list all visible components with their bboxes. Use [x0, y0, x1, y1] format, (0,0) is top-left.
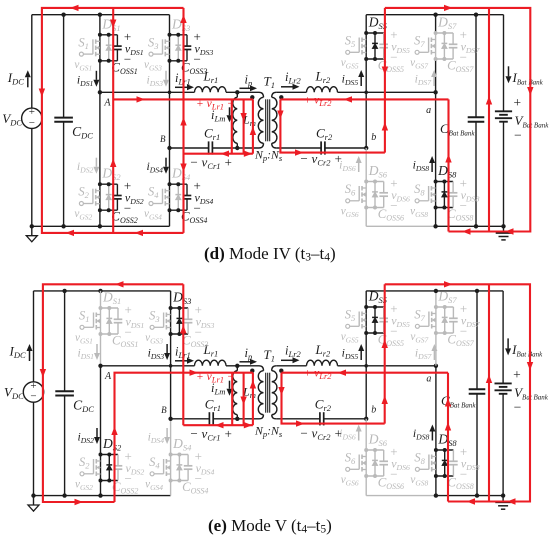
ground (primary) [33, 496, 35, 505]
ground (primary) [31, 226, 33, 235]
current arrow [70, 5, 79, 11]
svg-text:−: − [390, 467, 397, 482]
wire: DC source branch [31, 15, 33, 108]
diode DS7 (body diode) [444, 307, 446, 317]
current arrow [295, 149, 304, 155]
capacitor Cr2 [319, 412, 321, 425]
current arrow [221, 151, 230, 157]
transistor S8 (MOSFET, gray symbol) [415, 199, 419, 203]
label iDS3 with arrow [146, 71, 169, 88]
wire: cell S2 top/bottom bars [100, 183, 118, 185]
capacitor COSS6 [383, 182, 385, 193]
wire: cell S4 top/bottom bars [171, 454, 189, 456]
svg-text:B: B [160, 134, 166, 144]
current arrow [110, 20, 116, 29]
wire (red current path) [115, 373, 253, 502]
svg-text:Np​:Ns​: Np​:Ns​ [254, 423, 283, 439]
current arrow [215, 422, 224, 428]
wire: secondary top rail [366, 290, 503, 292]
svg-text:−: − [125, 325, 132, 340]
svg-text:S6​: S6​ [345, 182, 356, 198]
wire: cell S2 top/bottom bars [101, 454, 119, 456]
current arrow [382, 122, 388, 131]
svg-text:b: b [371, 404, 376, 415]
svg-text:−: − [194, 201, 201, 216]
capacitor COSS8 [452, 182, 454, 193]
svg-text:−: − [514, 399, 522, 414]
svg-text:−: − [195, 325, 202, 340]
wire: Cr1 to transformer [213, 418, 259, 420]
wire: node A to Lr1 [101, 365, 195, 367]
wire: cell S6 top/bottom bars [366, 181, 384, 183]
wire: leg a (S7/S8) [435, 15, 437, 227]
capacitor COSS3 [186, 35, 188, 46]
circuit (e): Mode V [4, 281, 549, 535]
label iDS1 with arrow [77, 344, 100, 361]
capacitor COSS2 [116, 184, 118, 195]
svg-text:−: − [195, 471, 202, 486]
transistor S1 (MOSFET, gray symbol) [79, 52, 83, 56]
current arrow [445, 422, 451, 431]
transistor S2 (MOSFET, gray symbol) [79, 202, 83, 206]
wire: primary bottom rail [34, 495, 171, 497]
diode DS4 (body diode) [178, 455, 180, 465]
wire: cell S3 top/bottom bars [171, 307, 189, 309]
wire: secondary bottom, transformer to Cr2 [276, 418, 320, 420]
wire: node A to Lr1 [100, 91, 195, 93]
capacitor Cr2 [320, 141, 322, 154]
label iDS2 with arrow [77, 428, 100, 445]
wire: cell S8 top/bottom bars [436, 181, 454, 183]
wire (red current path) [183, 424, 253, 426]
wire: secondary bottom, transformer to Cr2 [276, 147, 321, 149]
source VDC [23, 382, 43, 402]
current arrow [527, 87, 533, 96]
svg-text:a: a [426, 373, 431, 384]
transformer T1 primary winding [259, 92, 264, 97]
node: S3 cell junctions [168, 33, 172, 37]
wire (red current path) [231, 99, 233, 153]
wire: Cr1 to transformer [212, 147, 259, 149]
current arrow [75, 499, 84, 505]
node: rail junctions [62, 289, 66, 293]
current arrow [250, 380, 256, 389]
capacitor COSS4 [186, 184, 188, 195]
wire: leg b (S5/S6) [365, 15, 367, 148]
diode DS6 (body diode) [374, 450, 376, 460]
wire: primary bottom rail [32, 225, 170, 227]
current arrow [382, 340, 388, 349]
wire: Lr1 to transformer [226, 91, 259, 93]
diode DS3 (body diode) [177, 35, 179, 45]
svg-text:(e) Mode V (t4–t5): (e) Mode V (t4–t5) [208, 516, 332, 536]
label iDS6 with arrow [339, 156, 362, 173]
current arrow [190, 370, 199, 376]
node: S6 cell junctions [364, 448, 368, 452]
transistor S6 (MOSFET, gray symbol) [346, 467, 350, 471]
node: S5 cell junctions [364, 305, 368, 309]
svg-text:+: + [514, 95, 522, 110]
current arrow [244, 151, 253, 157]
capacitor CDC [64, 291, 66, 391]
svg-text:(d) Mode IV (t3–t4): (d) Mode IV (t3–t4) [204, 244, 336, 264]
label iDS8 with arrow [413, 425, 436, 442]
capacitor COSS4 [187, 455, 189, 466]
svg-text:−: − [390, 324, 397, 339]
current arrow [505, 228, 514, 234]
current arrow [180, 117, 186, 126]
capacitor COSS5 [383, 33, 385, 44]
ground (secondary) [502, 496, 504, 503]
current arrow [507, 498, 516, 504]
wire (red current path) [182, 284, 184, 425]
node B [167, 146, 171, 150]
diode DS8 (body diode) [444, 450, 446, 460]
node: S4 cell junctions [168, 182, 172, 186]
current arrow [444, 5, 453, 11]
wire (red current path) [385, 284, 530, 501]
label iDS5 with arrow [342, 70, 365, 87]
current arrow [110, 159, 116, 168]
transformer T1 secondary winding [272, 92, 277, 97]
wire: cell S6 top/bottom bars [366, 449, 384, 451]
node B [168, 417, 172, 421]
wire: Lr2 to node a [338, 91, 436, 93]
diode DS1 (body diode) [108, 308, 110, 318]
svg-text:S4​: S4​ [149, 455, 160, 471]
current arrow [444, 281, 453, 287]
node b [364, 417, 368, 421]
wire: leg A (S1/S2) [99, 15, 101, 227]
transistor S1 (MOSFET, gray symbol) [80, 325, 84, 329]
current arrow [445, 154, 451, 163]
wire: transformer to Lr2 [276, 365, 306, 367]
label iDS5 with arrow [342, 344, 365, 361]
transistor S3 (MOSFET, gray symbol) [150, 325, 154, 329]
transistor S4 (MOSFET, gray symbol) [149, 202, 153, 206]
wire (red current path) [447, 373, 449, 502]
diode DS8 (body diode) [443, 182, 445, 192]
svg-text:−: − [460, 50, 467, 65]
current arrow [278, 387, 284, 396]
diode DS1 (body diode) [108, 35, 110, 45]
current arrow [527, 362, 533, 371]
wire: leg segment inside inactive cell S7 [435, 307, 437, 333]
current arrow [111, 427, 117, 436]
capacitor COSS5 [383, 307, 385, 318]
wire: leg b (S5/S6) [365, 291, 367, 419]
wire: leg segment inside inactive cell S6 [365, 450, 367, 476]
transistor S7 (MOSFET, gray symbol) [415, 324, 419, 328]
wire (red current path) [112, 8, 114, 233]
current arrow [338, 370, 347, 376]
svg-text:S6​: S6​ [345, 451, 356, 467]
node: S4 cell junctions [169, 453, 173, 457]
node A [98, 364, 102, 368]
node: S7 cell junctions [434, 31, 438, 35]
transformer T1 core [265, 99, 267, 141]
wire: primary top rail [34, 290, 171, 292]
wire: cell S7 top/bottom bars [436, 32, 454, 34]
label iDS6 with arrow [339, 425, 362, 442]
label IBatBank with arrow [507, 338, 509, 348]
wire (red current path) [488, 8, 490, 232]
wire: leg segment inside inactive cell S4 [169, 455, 171, 481]
node: secondary rail junctions [434, 289, 438, 293]
transistor S2 (MOSFET, gray symbol) [80, 472, 84, 476]
wire: leg segment inside inactive cell S7 [434, 33, 436, 59]
wire (red current path) [113, 98, 253, 100]
node: S3 cell junctions [169, 306, 173, 310]
node: S6 cell junctions [364, 180, 368, 184]
transformer polarity dots [250, 369, 254, 373]
label iDS7 with arrow [415, 344, 438, 361]
inductor Lm (magnetizing) [235, 364, 239, 368]
diode DS4 (body diode) [177, 184, 179, 194]
current arrow [39, 89, 45, 98]
wire: DC source branch [33, 291, 35, 382]
wire (red current path) [252, 99, 254, 153]
node: S1 cell junctions [99, 306, 103, 310]
node: S8 cell junctions [434, 448, 438, 452]
wire: Lr1 to transformer [226, 365, 259, 367]
wire: cell S8 top/bottom bars [436, 449, 454, 451]
wire: leg segment inside inactive cell S1 [99, 308, 101, 334]
label iDS3 with arrow [148, 344, 171, 361]
diode DS5 (body diode) [374, 33, 376, 43]
svg-text:S7​: S7​ [414, 308, 425, 324]
svg-text:Np​:Ns​: Np​:Ns​ [254, 148, 283, 164]
wire (red current path) [43, 284, 183, 502]
current arrow [467, 498, 476, 504]
wire (red current path) [184, 153, 253, 155]
svg-text:b: b [371, 132, 376, 143]
wire: leg A (S1/S2) [100, 291, 102, 366]
current arrow [462, 228, 471, 234]
transistor S4 (MOSFET, gray symbol) [150, 472, 154, 476]
inductor Lm (magnetizing) [235, 90, 239, 94]
node: S1 cell junctions [98, 33, 102, 37]
wire: cell S7 top/bottom bars [436, 306, 454, 308]
wire: secondary bottom rail [366, 495, 436, 497]
wire (red current path) [280, 99, 385, 152]
node: S7 cell junctions [434, 305, 438, 309]
wire (red current path) [282, 372, 449, 374]
svg-text:B: B [161, 405, 167, 415]
wire: cell S4 top/bottom bars [170, 183, 188, 185]
node: S2 cell junctions [98, 182, 102, 186]
capacitor COSS1 [116, 35, 118, 46]
transformer T1 core [265, 373, 267, 413]
current arrow [115, 281, 124, 287]
node A [98, 90, 102, 94]
wire (red current path) [243, 99, 245, 153]
inductor Lr2 [307, 360, 338, 366]
node: rail junctions [61, 13, 65, 17]
wire (red current path) [447, 99, 449, 231]
diode DS6 (body diode) [374, 182, 376, 192]
current arrow [296, 420, 305, 426]
diode DS5 (body diode) [374, 307, 376, 317]
transistor S6 (MOSFET, gray symbol) [346, 199, 350, 203]
circuit (d): Mode IV [2, 5, 549, 264]
source VDC [22, 108, 42, 128]
battery VBatBank [503, 15, 505, 112]
capacitor CBatBank [476, 291, 478, 389]
wire (red current path) [384, 284, 386, 423]
svg-text:A: A [103, 97, 111, 108]
svg-text:−: − [460, 324, 467, 339]
wire: Cr2 to node b [324, 418, 367, 420]
capacitor Cr1 [208, 412, 210, 425]
diode DS3 (body diode) [178, 308, 180, 318]
svg-text:−: − [460, 198, 467, 213]
capacitor COSS1 [117, 308, 119, 319]
current arrow [180, 325, 186, 334]
svg-text:−: − [29, 117, 35, 129]
svg-text:S2​: S2​ [78, 185, 89, 201]
wire: leg B (S3/S4) [169, 15, 171, 227]
capacitor CDC [63, 15, 65, 118]
current arrow [135, 230, 144, 236]
transformer polarity dots [250, 95, 254, 99]
wire (red current path) [280, 98, 448, 100]
label iDS1 with arrow [77, 71, 100, 88]
wire (red current path) [182, 8, 184, 233]
wire: cell S1 top/bottom bars [101, 307, 119, 309]
label iDS2 with arrow [77, 158, 100, 175]
capacitor COSS6 [383, 450, 385, 461]
transistor S5 (MOSFET, gray symbol) [346, 50, 350, 54]
transistor S7 (MOSFET, gray symbol) [415, 50, 419, 54]
wire (red current path) [384, 8, 386, 153]
current arrow [344, 96, 353, 102]
wire (red current path) [282, 373, 385, 424]
svg-text:−: − [390, 50, 397, 65]
node: secondary rail junctions [433, 13, 437, 17]
current arrow [382, 396, 388, 405]
wire: primary top rail [32, 14, 170, 16]
label iDS4 with arrow [148, 428, 171, 445]
battery VBatBank [502, 291, 504, 384]
transistor S5 (MOSFET, gray symbol) [346, 324, 350, 328]
diode DS2 (body diode) [108, 455, 110, 465]
wire: node B to Cr1 [170, 147, 209, 149]
wire (red current path) [231, 373, 233, 426]
node a [434, 364, 438, 368]
transformer T1 primary winding [259, 366, 264, 371]
current arrow [66, 230, 75, 236]
capacitor COSS2 [117, 455, 119, 466]
wire: Cr2 to node b [325, 147, 366, 149]
transistor S3 (MOSFET, gray symbol) [149, 52, 153, 56]
current arrow [250, 127, 256, 136]
wire: transformer to Lr2 [276, 91, 306, 93]
node: S2 cell junctions [99, 453, 103, 457]
svg-text:−: − [124, 51, 131, 66]
current arrow [277, 111, 283, 120]
wire: cell S3 top/bottom bars [170, 34, 188, 36]
svg-text:A: A [104, 371, 112, 382]
wire: node B to Cr1 [171, 418, 210, 420]
diode DS7 (body diode) [443, 33, 445, 43]
wire (red current path) [488, 284, 490, 501]
current arrow [486, 375, 492, 384]
current arrow [240, 397, 246, 406]
svg-text:−: − [390, 198, 397, 213]
wire: Lr2 to node a [338, 365, 436, 367]
svg-text:S8​: S8​ [414, 182, 425, 198]
svg-text:−: − [194, 51, 201, 66]
capacitor COSS7 [452, 307, 454, 318]
node: S8 cell junctions [434, 180, 438, 184]
capacitor COSS8 [452, 450, 454, 461]
label iDS7 with arrow [415, 70, 438, 87]
inductor Lr1 [195, 87, 227, 93]
svg-text:S8​: S8​ [414, 451, 425, 467]
current arrow [382, 67, 388, 76]
capacitor COSS3 [187, 308, 189, 319]
wire: cell S5 top/bottom bars [366, 32, 384, 34]
wire: secondary top rail [366, 14, 503, 16]
current arrow [244, 422, 253, 428]
svg-text:−: − [460, 467, 467, 482]
wire: leg a (S7/S8) [435, 291, 437, 366]
current arrow [180, 164, 186, 173]
svg-text:S7​: S7​ [414, 34, 425, 50]
current arrow [240, 113, 246, 122]
svg-text:−: − [125, 471, 132, 486]
wire (red current path) [385, 8, 530, 232]
transformer T1 secondary winding [272, 366, 277, 371]
wire (red current path) [42, 8, 184, 233]
inductor Lr2 [307, 87, 338, 93]
wire: secondary bottom rail [366, 225, 435, 227]
diode DS2 (body diode) [108, 184, 110, 194]
wire: leg segment inside inactive cell S6 [365, 182, 367, 208]
node: S5 cell junctions [364, 31, 368, 35]
node b [364, 146, 368, 150]
current arrow [137, 96, 146, 102]
label IBatBank with arrow [508, 66, 510, 76]
label iDS8 with arrow [413, 156, 436, 173]
ground (secondary) [503, 226, 505, 233]
wire (red current path) [252, 373, 254, 426]
transistor S8 (MOSFET, gray symbol) [415, 467, 419, 471]
wire: cell S5 top/bottom bars [366, 306, 384, 308]
svg-text:−: − [124, 201, 131, 216]
current arrow [40, 369, 46, 378]
current arrow [180, 15, 186, 24]
svg-text:−: − [514, 127, 522, 142]
inductor Lr1 [195, 360, 227, 366]
capacitor CBatBank [475, 15, 477, 118]
svg-text:−: − [30, 391, 36, 403]
current arrow [445, 398, 451, 407]
label iDS4 with arrow [146, 158, 169, 175]
svg-text:+: + [513, 367, 521, 382]
wire: leg B (S3/S4) [170, 291, 172, 419]
svg-text:a: a [426, 105, 431, 116]
wire: cell S1 top/bottom bars [100, 34, 118, 36]
capacitor COSS7 [452, 33, 454, 44]
capacitor Cr1 [208, 141, 210, 154]
current arrow [486, 96, 492, 105]
node a [433, 90, 437, 94]
wire (red current path) [243, 373, 245, 426]
